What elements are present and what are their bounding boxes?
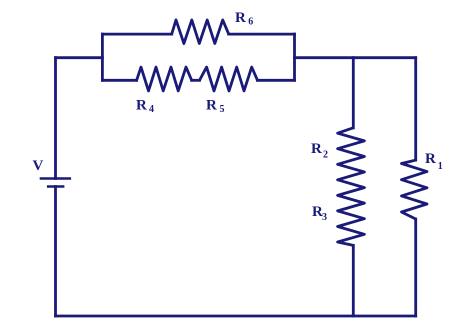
svg-text:6: 6 bbox=[248, 17, 253, 28]
wire: bottom rail bbox=[56, 315, 416, 318]
resistor R5 bbox=[200, 67, 258, 91]
wire: middle branch top (node to R2) bbox=[352, 58, 355, 128]
wire: parallel box right vertical bbox=[293, 34, 296, 80]
wire: middle branch bottom (R3 to bottom rail) bbox=[352, 245, 355, 316]
svg-text:4: 4 bbox=[149, 104, 154, 115]
wire: bottom branch right segment bbox=[258, 79, 295, 82]
resistor R1 bbox=[402, 160, 428, 219]
wire: bottom branch left segment bbox=[102, 79, 136, 82]
resistor R6 bbox=[172, 20, 229, 44]
svg-text:1: 1 bbox=[438, 161, 443, 172]
svg-text:V: V bbox=[33, 158, 44, 174]
svg-text:R: R bbox=[235, 10, 246, 26]
svg-text:2: 2 bbox=[323, 150, 328, 161]
svg-text:R: R bbox=[136, 97, 147, 113]
battery V short plate (negative) bbox=[47, 185, 65, 188]
wire: left vertical, entry corner down to battery top plate bbox=[54, 58, 57, 179]
wire: parallel box left vertical bbox=[101, 34, 104, 80]
wire: box right exit to right branch bbox=[295, 56, 416, 59]
wire: link between R4 and R5 bbox=[192, 79, 200, 82]
svg-text:R: R bbox=[206, 97, 217, 113]
wire: top branch left segment bbox=[102, 33, 171, 36]
battery V long plate (positive) bbox=[40, 177, 71, 180]
svg-text:R: R bbox=[425, 151, 436, 167]
svg-text:R: R bbox=[311, 141, 322, 157]
resistor R4 bbox=[137, 67, 192, 91]
resistor R2 and resistor R3 (series zigzag) bbox=[338, 128, 365, 246]
svg-text:5: 5 bbox=[220, 104, 225, 115]
wire: right branch bottom (R1 to bottom rail) bbox=[414, 219, 417, 316]
wire: battery bottom plate down to bottom rail bbox=[54, 187, 57, 317]
wire: right branch top (node to R1) bbox=[414, 58, 417, 160]
svg-text:3: 3 bbox=[322, 212, 327, 223]
wire: battery positive to parallel box (left entry) bbox=[56, 56, 103, 59]
wire: top branch right segment bbox=[229, 33, 295, 36]
